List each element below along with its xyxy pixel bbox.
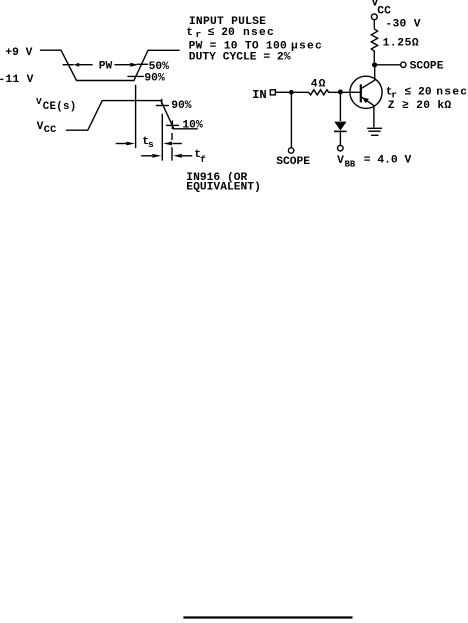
svg-text:PW: PW <box>99 60 113 72</box>
svg-text:90%: 90% <box>144 73 165 85</box>
svg-text:BB: BB <box>345 159 356 169</box>
svg-text:r: r <box>391 89 397 100</box>
svg-text:1.25Ω: 1.25Ω <box>383 37 420 49</box>
svg-text:= 4.0 V: = 4.0 V <box>364 155 412 167</box>
svg-text:-30 V: -30 V <box>385 19 420 31</box>
svg-text:V: V <box>36 96 42 107</box>
svg-text:90%: 90% <box>171 100 192 112</box>
svg-text:f: f <box>200 154 206 165</box>
svg-text:CC: CC <box>377 6 391 18</box>
svg-text:IN: IN <box>252 88 267 102</box>
svg-text:V: V <box>37 121 44 133</box>
svg-text:SCOPE: SCOPE <box>276 156 310 168</box>
svg-text:50%: 50% <box>149 61 170 73</box>
svg-text:nsec: nsec <box>243 27 275 39</box>
svg-text:Z ≥ 20 kΩ: Z ≥ 20 kΩ <box>388 100 452 112</box>
svg-text:SCOPE: SCOPE <box>410 61 444 73</box>
svg-text:-11 V: -11 V <box>0 74 34 86</box>
svg-text:CE(s): CE(s) <box>43 101 77 113</box>
svg-text:+9 V: +9 V <box>5 47 32 59</box>
svg-text:≤ 20: ≤ 20 <box>405 87 432 99</box>
svg-text:nsec: nsec <box>436 87 468 99</box>
svg-text:μsec: μsec <box>291 41 323 53</box>
svg-text:4Ω: 4Ω <box>311 78 327 90</box>
svg-text:EQUIVALENT): EQUIVALENT) <box>186 181 261 193</box>
svg-text:V: V <box>337 155 344 167</box>
svg-text:≤ 20: ≤ 20 <box>208 27 235 39</box>
svg-text:CC: CC <box>44 124 57 136</box>
svg-text:10%: 10% <box>182 119 203 131</box>
svg-text:s: s <box>148 139 154 150</box>
svg-text:DUTY CYCLE = 2%: DUTY CYCLE = 2% <box>189 52 291 64</box>
svg-text:t: t <box>186 27 193 39</box>
svg-text:r: r <box>196 29 202 40</box>
